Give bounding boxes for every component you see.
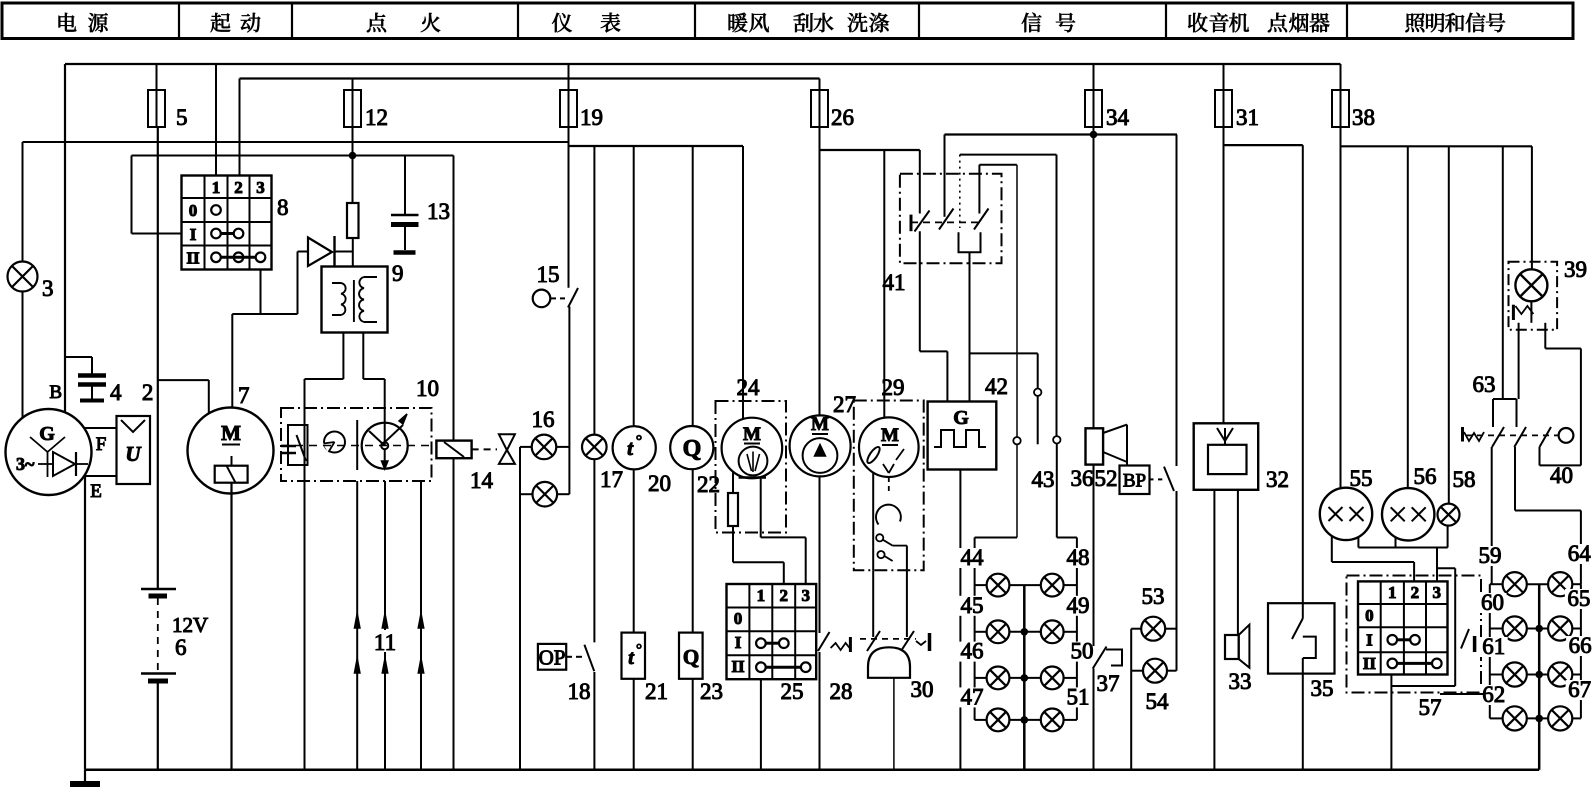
svg-text:58: 58 [1453, 467, 1476, 492]
svg-text:64: 64 [1568, 541, 1592, 566]
fuel sender 23 [679, 633, 703, 679]
fuse 31 [1223, 64, 1225, 90]
wire B generator top [64, 64, 66, 357]
svg-text:54: 54 [1146, 689, 1170, 714]
svg-text:19: 19 [580, 105, 603, 130]
dimmer outputs [1491, 447, 1493, 584]
starter motor M 7 [188, 408, 274, 494]
svg-text:E: E [90, 481, 102, 502]
wire battery to starter [158, 379, 209, 381]
svg-text:12V: 12V [172, 613, 208, 637]
wire rail8 to switch35 [1302, 145, 1304, 618]
svg-text:16: 16 [532, 407, 555, 432]
svg-text:30: 30 [911, 677, 934, 702]
svg-text:2: 2 [234, 178, 243, 197]
hazard switch terminals 43 [970, 352, 1038, 354]
svg-text:I: I [735, 633, 742, 652]
svg-text:61: 61 [1482, 634, 1505, 659]
wire table57 col1 down [1390, 675, 1392, 770]
svg-text:26: 26 [831, 105, 854, 130]
svg-text:°: ° [636, 642, 642, 658]
wire F [84, 427, 117, 429]
fuse 34 [1093, 64, 1095, 90]
buzzer 36 [1086, 428, 1104, 464]
wire to table8 col2 [239, 79, 241, 176]
headlamp lower wires [1331, 536, 1333, 562]
svg-text:15: 15 [537, 262, 560, 287]
svg-text:63: 63 [1473, 372, 1496, 397]
svg-text:39: 39 [1564, 257, 1587, 282]
svg-text:41: 41 [883, 270, 906, 295]
svg-text:20: 20 [648, 471, 671, 496]
svg-text:0: 0 [734, 609, 743, 628]
wire table25 col1 down [760, 679, 762, 770]
svg-text:28: 28 [830, 679, 853, 704]
spark plug wires 11 [356, 481, 358, 770]
box 29 [854, 401, 924, 571]
svg-text:59: 59 [1479, 543, 1502, 568]
svg-text:56: 56 [1414, 464, 1437, 489]
wire rail2 [132, 155, 454, 157]
svg-text:42: 42 [985, 374, 1008, 399]
svg-text:M: M [881, 425, 899, 446]
fuel gauge 22 [692, 146, 694, 426]
svg-text:0: 0 [189, 201, 198, 220]
svg-text:51: 51 [1067, 684, 1090, 709]
wire rail9 lighting [1341, 145, 1533, 147]
svg-text:38: 38 [1352, 105, 1375, 130]
ignition switch table 8 [182, 176, 272, 270]
light switch table [1358, 581, 1448, 674]
svg-text:57: 57 [1419, 695, 1442, 720]
turn lamp labels [958, 548, 986, 568]
oil pressure switch 18 [538, 644, 566, 670]
washer pump M 27 [790, 415, 851, 476]
horn 30 [868, 647, 910, 678]
temperature sender 21 [622, 633, 646, 679]
fuse 19 [568, 64, 570, 90]
speaker 33 [1225, 635, 1239, 659]
svg-text:14: 14 [470, 468, 494, 493]
dotted link [959, 155, 961, 228]
svg-text:II: II [731, 657, 745, 676]
svg-text:8: 8 [277, 195, 289, 220]
valve symbol [472, 448, 497, 450]
ground symbol [84, 770, 86, 783]
svg-text:40: 40 [1550, 463, 1573, 488]
svg-text:36: 36 [1071, 466, 1094, 491]
svg-text:G: G [953, 407, 969, 429]
wiper resistor [728, 493, 738, 526]
svg-text:°: ° [636, 433, 642, 450]
lamp 39 panel light [1531, 146, 1533, 269]
park switch mech [888, 477, 890, 494]
fuse 38 [1340, 64, 1342, 90]
svg-text:44: 44 [961, 545, 985, 570]
wire rail4 to motor29 [883, 150, 885, 418]
wire rail2 right down [453, 156, 455, 441]
svg-text:3~: 3~ [16, 454, 35, 474]
wire rail4 wiper [820, 149, 920, 151]
svg-text:1: 1 [757, 586, 766, 605]
svg-text:62: 62 [1482, 682, 1505, 707]
wiper switch table 25 [727, 584, 817, 679]
svg-text:OP: OP [539, 646, 566, 670]
fuse 12 [352, 79, 354, 91]
capacitor 13 [404, 156, 406, 215]
distributor box 10 [281, 408, 432, 481]
side lamps 53 54 [1141, 617, 1165, 641]
ignition coil 9 [322, 267, 388, 333]
svg-text:2: 2 [1411, 583, 1420, 602]
junction fuse34-rail5 [1093, 127, 1095, 428]
svg-text:3: 3 [1433, 583, 1442, 602]
wire top bus [65, 63, 1341, 65]
lamp 17 [593, 146, 595, 435]
ballast resistor [347, 203, 359, 238]
wire rail6 [960, 154, 1057, 156]
svg-text:25: 25 [781, 679, 804, 704]
distributor rotor [362, 423, 408, 469]
wire rail7 [979, 164, 1016, 166]
svg-text:23: 23 [700, 679, 723, 704]
svg-text:43: 43 [1032, 467, 1055, 492]
fuse 5 [156, 64, 158, 90]
wire diode anode down [297, 252, 299, 315]
svg-text:27: 27 [833, 392, 856, 417]
svg-text:66: 66 [1569, 633, 1592, 658]
svg-text:50: 50 [1071, 639, 1094, 664]
svg-text:65: 65 [1567, 586, 1590, 611]
horn button switch [1176, 135, 1178, 467]
svg-text:3: 3 [801, 586, 810, 605]
header label 电源 [59, 13, 77, 32]
relay coil 41 [959, 232, 981, 252]
regulator U 2 [117, 416, 151, 484]
turn lamp center wire [1023, 585, 1026, 770]
svg-text:2: 2 [780, 586, 789, 605]
charge indicator lamp 3 [22, 142, 24, 262]
motor M 29 [859, 417, 919, 477]
wire rail3 to wiper [742, 146, 744, 419]
svg-text:60: 60 [1481, 590, 1504, 615]
wiper motor M 24 [722, 418, 783, 479]
wire rail2 to table8 row I [131, 156, 133, 234]
wire bus2 [240, 77, 820, 79]
header label 仪表 [552, 13, 572, 32]
wire rail4 to lever1 [919, 150, 921, 214]
wiper box 24 [716, 401, 787, 533]
battery 12V 6 [157, 127, 159, 589]
wire fuse19 down [568, 127, 570, 146]
svg-text:2: 2 [142, 380, 154, 405]
wire rail3 instruments [569, 145, 744, 147]
bottom ground bus [85, 769, 1539, 772]
svg-text:7: 7 [238, 383, 250, 408]
svg-text:BP: BP [1123, 471, 1146, 492]
wire rail1 [23, 141, 569, 143]
switch 37 [1093, 465, 1095, 646]
svg-text:3: 3 [42, 276, 54, 301]
radio 32 [1194, 423, 1259, 490]
wiper motor out right [760, 478, 762, 538]
turn lamps left 44-47 [975, 584, 987, 586]
svg-text:37: 37 [1097, 671, 1120, 696]
svg-text:M: M [743, 424, 761, 445]
svg-text:17: 17 [600, 467, 623, 492]
header label 信号 [1022, 13, 1042, 33]
wire to table8 col1 [215, 64, 217, 176]
wire coil to distributor [342, 333, 344, 380]
horn switches above 30 [872, 570, 874, 637]
wire fuse31 down [1223, 127, 1225, 423]
wire E [84, 475, 117, 477]
breaker points [288, 425, 308, 465]
svg-text:Q: Q [683, 645, 699, 669]
header label 起动 [211, 13, 231, 32]
header label 点火 [367, 13, 386, 32]
relay levers 41 [910, 215, 913, 232]
svg-text:11: 11 [374, 630, 396, 655]
svg-text:II: II [1363, 654, 1377, 673]
horn relay BP 52 [1120, 466, 1150, 495]
svg-text:M: M [811, 414, 829, 435]
svg-text:3: 3 [256, 178, 265, 197]
header table frame [2, 3, 1573, 39]
svg-text:49: 49 [1067, 593, 1090, 618]
temperature gauge 20 [633, 146, 635, 426]
junction fuse12-rail2 [352, 127, 354, 203]
svg-text:24: 24 [737, 375, 761, 400]
svg-text:31: 31 [1236, 105, 1259, 130]
svg-text:10: 10 [416, 376, 439, 401]
headlamp 55 [1340, 146, 1342, 487]
svg-text:53: 53 [1142, 584, 1165, 609]
svg-text:55: 55 [1350, 466, 1373, 491]
header label 收音机 点烟器 [1188, 13, 1207, 32]
svg-text:9: 9 [392, 261, 404, 286]
wire rail7 to lever3 [978, 165, 980, 214]
switch 15 [533, 290, 551, 308]
header label 暖风 刮水 洗涤 [729, 13, 748, 32]
svg-text:6: 6 [175, 635, 187, 660]
svg-text:22: 22 [697, 472, 720, 497]
svg-text:13: 13 [427, 199, 450, 224]
switch 35 [1268, 603, 1335, 673]
svg-text:21: 21 [645, 679, 668, 704]
svg-text:32: 32 [1266, 467, 1289, 492]
light switch box 57 [1347, 576, 1482, 693]
wire fuse38 down [1340, 127, 1342, 488]
svg-text:34: 34 [1106, 105, 1130, 130]
diode [298, 251, 309, 253]
svg-text:F: F [96, 434, 107, 455]
marker lamps matrix [1490, 583, 1503, 585]
svg-text:46: 46 [961, 639, 984, 664]
svg-text:G: G [39, 423, 55, 445]
flasher unit G 42 [969, 252, 971, 401]
svg-text:48: 48 [1067, 545, 1090, 570]
svg-text:I: I [190, 225, 197, 244]
svg-text:II: II [186, 249, 200, 268]
svg-text:1: 1 [1388, 583, 1397, 602]
relay box 41 [900, 174, 1002, 263]
svg-text:1: 1 [212, 178, 221, 197]
lamps 16 [532, 435, 557, 460]
wire table8 col3 to starter [260, 270, 262, 315]
svg-text:52: 52 [1095, 466, 1118, 491]
wire ignition lamp 16 [568, 146, 570, 288]
box57 bottom tail [1440, 693, 1483, 695]
svg-text:U: U [125, 442, 142, 466]
svg-text:Q: Q [683, 436, 702, 462]
headlamp 56 [1407, 146, 1409, 488]
fuse 26 [819, 79, 821, 91]
solenoid 14 [436, 441, 471, 459]
wire rail5 to lever2 [944, 135, 946, 217]
svg-text:18: 18 [568, 679, 591, 704]
wire pump down switch 28 [819, 476, 821, 633]
speaker wires [1213, 490, 1215, 770]
svg-text:M: M [221, 421, 241, 445]
svg-text:4: 4 [110, 380, 122, 405]
svg-text:33: 33 [1229, 669, 1252, 694]
distributor cam [324, 432, 345, 453]
wire rail5 signal [945, 133, 1178, 135]
capacitor 4 [91, 357, 93, 374]
header label 照明和信号 [1405, 13, 1424, 32]
switch lever 61 [1461, 629, 1469, 649]
svg-text:67: 67 [1568, 677, 1591, 702]
svg-text:12: 12 [365, 105, 388, 130]
svg-text:5: 5 [176, 105, 188, 130]
generator G 1 [6, 409, 92, 495]
svg-text:45: 45 [961, 593, 984, 618]
svg-text:I: I [1366, 630, 1373, 649]
wire rail8 radio [1224, 144, 1303, 146]
marker center wire [1538, 584, 1541, 770]
svg-text:47: 47 [961, 684, 984, 709]
turn lamp feed wires [975, 537, 1017, 539]
svg-text:0: 0 [1365, 606, 1374, 625]
svg-text:B: B [49, 382, 62, 403]
wire fuse26 down [819, 127, 821, 416]
lamp 58 [1448, 146, 1450, 503]
dimmer switch 63 [1502, 146, 1504, 399]
svg-text:35: 35 [1311, 676, 1334, 701]
marker labels [1476, 546, 1504, 566]
